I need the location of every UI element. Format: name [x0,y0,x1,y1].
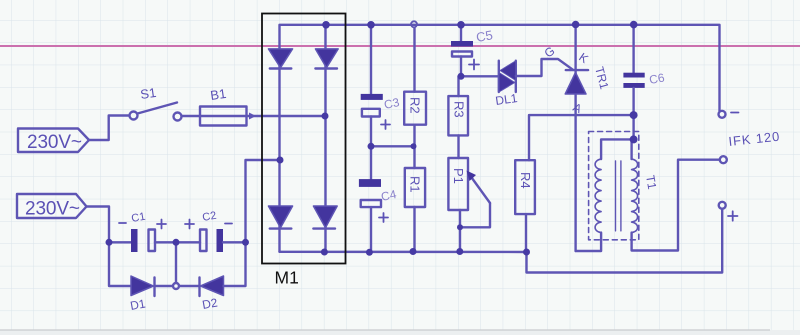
wire R2 to R1 [413,125,415,168]
net tag 230V~ (lower mains input) [17,194,87,218]
wire D2 up to node C [224,242,246,286]
svg-text:C6: C6 [648,70,666,87]
junction top rail / C5 [457,21,465,29]
wire bridge right column [324,25,326,252]
terminal plus (flashtube) [719,202,726,209]
junction node F (R4/C6 lead) [630,111,638,119]
junction top rail / bridge right column [322,21,330,29]
svg-text:D2: D2 [201,295,219,312]
junction bottom rail / bridge right column [321,249,328,256]
wire R4 to bottom rail [525,214,527,252]
resistor R2 [404,92,426,125]
open node top rail / R2 [411,21,417,27]
wire plus terminal return to bottom rail [527,209,723,273]
transformer T1 core [616,161,621,231]
resistor R4 [515,160,535,214]
svg-text:R1: R1 [408,176,423,193]
polarity plus at C5 [469,60,479,70]
svg-text:R2: R2 [408,97,423,114]
wire fuse B1 to bridge M1 right column [247,115,326,117]
bridge diode top-right (M1) [315,49,338,69]
wire C3 to mid node D [370,117,372,147]
bridge rectifier M1 highlight box (digital overlay) [262,14,346,264]
wire T1 secondary bottom lead to trigger terminal [632,160,720,251]
wire node A down to diode D1 [109,242,131,286]
bridge diode bottom-left (M1) [268,206,292,229]
wire node A to C1 [109,241,131,243]
resistor R1 [405,168,425,207]
diac DL1 [499,61,516,92]
svg-text:R4: R4 [518,172,533,189]
diode D2 [200,276,224,296]
junction bottom rail / P1 [456,248,463,255]
wire tag2 down to capacitor row node A [87,207,110,243]
wire top rail to R2 [413,28,415,92]
junction bridge AC2 on left column [277,157,284,164]
svg-text:C1: C1 [130,211,146,225]
wire node E to DL1 [461,75,499,77]
wire DC+ top rail [280,25,720,111]
polarity minus at output terminal [731,112,739,114]
capacitor C5 (electrolytic) [451,41,473,57]
wire T1 secondary top lead [630,139,632,159]
wire node E to R3 [457,76,459,96]
junction top rail / C3 [367,21,375,29]
svg-text:R3: R3 [452,101,467,118]
node between D1 and D2 (open) [173,283,179,289]
svg-text:S1: S1 [139,85,157,102]
wire TR1 anode to T1 primary bottom lead [576,233,602,251]
P1 wiper arrow [467,171,491,204]
transformer T1 secondary winding [632,159,638,233]
capacitor C1 (electrolytic, minus left) [131,229,155,252]
junction bottom rail / R4 / plus return [523,249,530,256]
wire switch to fuse B1 [182,115,201,117]
net tag 230V~ (upper mains input) [18,129,89,153]
wire R1 to bottom rail [413,207,415,252]
wire DC- bottom rail [280,251,527,254]
junction node B (C1/C2 mid) [173,239,180,246]
wire center node B to C2 [176,241,200,243]
svg-text:B1: B1 [209,86,227,103]
fuse B1 [200,107,247,126]
capacitor C2 (electrolytic, minus right) [200,229,223,252]
polarity plus at C1 [157,220,166,229]
polarity minus at C2 [225,223,232,225]
svg-text:M1: M1 [275,268,299,288]
junction R2/R1 mid [411,143,417,149]
wire R4 top lead to C6/T1 node F [529,115,634,160]
junction node D (C3/C4) [368,143,375,150]
svg-text:230V~: 230V~ [27,132,82,153]
wire DL1 to gate G of TR1 [516,59,573,76]
junction node E (C5/R3/DL1) [458,73,465,80]
polarity plus at C2 [185,220,194,229]
wire node D to C4 [370,146,372,179]
diode D1 [131,276,155,296]
junction T1 winding tops [630,135,638,143]
wire tag1 to switch S1 [89,116,129,141]
junction top rail / TR1 [572,21,580,29]
wire mid node up to node B [175,242,177,283]
junction node C (C2 / D2 / bridge AC2) [242,239,249,246]
svg-text:C5: C5 [475,27,494,45]
svg-text:T1: T1 [643,174,659,191]
wire mid node to D2 [179,285,200,287]
switch S1 [130,103,182,121]
wire C6 to node F and into T1 [632,88,634,139]
junction bottom rail / C4 [366,249,373,256]
junction bottom rail / R1 [410,248,417,255]
wire C5 to node E [460,57,462,77]
polarity plus at output terminal [728,211,738,220]
junction bridge AC1 on right column [322,113,329,120]
transformer T1 dashed enclosure [589,132,639,240]
svg-text:P1: P1 [451,168,466,184]
terminal minus (flashtube) [719,111,726,118]
svg-text:D1: D1 [129,296,147,313]
polarity plus at C4 [379,213,388,222]
polarity plus at C3 [381,120,390,129]
wire top rail to C5 [460,25,462,41]
transformer T1 primary winding [595,159,601,233]
wire P1 wiper to P1 lower lead [460,203,490,227]
junction P1 wiper tie [457,224,463,230]
wire top rail to C6 [632,25,634,73]
junction node A (230V lower / C1 / D1) [106,239,113,246]
wire top rail to C3 [370,25,372,94]
terminal trigger (flashtube) [720,156,727,163]
svg-text:230V~: 230V~ [25,199,80,220]
wire C2 to right node C [223,241,246,243]
potentiometer P1 [448,158,468,210]
arrow tick after fuse B1 [249,113,256,120]
wire C4 to bottom rail [370,207,372,252]
wire D1 to mid node [155,285,174,287]
resistor R3 [448,96,468,135]
bridge diode top-left (M1) [268,49,292,69]
bridge diode bottom-right (M1) [313,206,337,229]
wire P1 to bottom rail [459,210,461,252]
wire node D to R2/R1 junction [371,145,414,147]
wire R3 to P1 [457,135,459,158]
svg-text:C2: C2 [201,210,217,224]
capacitor C3 (electrolytic) [361,94,383,117]
capacitor C4 (electrolytic) [359,179,381,207]
wire bridge left column [278,48,280,252]
wire node C up to bridge left column [246,160,281,242]
junction top rail / C6 [630,21,638,29]
thyristor TR1 (K top, A bottom) [565,25,588,252]
wire T1 primary top lead [601,139,632,159]
polarity minus at C1 [119,222,126,224]
wire C1 to center node B [155,241,176,243]
capacitor C6 [623,73,644,88]
